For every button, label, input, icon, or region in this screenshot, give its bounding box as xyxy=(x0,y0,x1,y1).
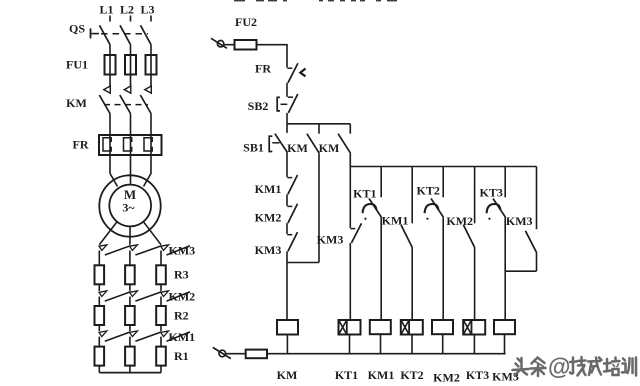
thermal relay FR label xyxy=(73,138,89,152)
thermal relay FR heater pole 2 xyxy=(124,135,132,155)
wire KM1 aux to KT2 coil xyxy=(411,248,413,320)
fuse FU1 pole 2 xyxy=(125,55,136,75)
time relay KT2 contact label xyxy=(417,184,440,198)
svg-text:KM3: KM3 xyxy=(506,214,533,228)
coil KM1 label xyxy=(368,368,395,382)
contactor KM1 shorting contact col 2 xyxy=(130,331,162,341)
svg-text:KM1: KM1 xyxy=(169,330,196,344)
wire KM1 coil to rail xyxy=(380,334,382,354)
switch QS pole 2 blade xyxy=(120,25,131,44)
wire KM3 self-hold tie xyxy=(505,270,536,272)
contactor KM1 shorting contact col 3 xyxy=(161,331,190,341)
time relay KT1 contact label xyxy=(353,187,376,201)
fuse FU2 bottom element xyxy=(246,350,267,359)
title text (cut off at top edge) xyxy=(234,0,397,1)
contactor KM aux contact (self-hold) xyxy=(307,124,319,153)
resistor R2 col 2 xyxy=(125,306,135,325)
contactor KM aux contact label xyxy=(287,141,308,155)
svg-text:R3: R3 xyxy=(174,268,189,282)
coil KT2 label xyxy=(400,368,423,382)
fuse FU1 pole 3 xyxy=(146,55,157,75)
contactor KM1 shorting contacts label xyxy=(169,330,196,344)
wire KM2 row to R2 xyxy=(160,297,162,307)
contactor KM1 NO aux contact xyxy=(401,167,412,248)
switch QS pole 1 blade xyxy=(100,25,111,44)
resistor R3 label xyxy=(174,268,189,282)
motor M 3~ xyxy=(99,175,160,236)
wire KM2 NC to KM3 NC xyxy=(286,223,288,234)
contactor KM3 NC contact label xyxy=(317,233,344,247)
wire KM3 NC to KT1 coil xyxy=(349,243,351,320)
contactor KM2 NO aux label xyxy=(446,214,473,228)
switch QS handle xyxy=(91,28,100,38)
resistor R1 label xyxy=(174,349,189,363)
wire R1 to star point xyxy=(160,366,162,373)
wire KM1 row to R1 xyxy=(129,337,131,347)
terminal plug bottom xyxy=(213,347,231,358)
wire KM1 row to R1 xyxy=(160,337,162,347)
wire R2 to KM1 row xyxy=(98,325,100,331)
coil KM1 xyxy=(370,320,391,334)
svg-text:FR: FR xyxy=(73,138,89,152)
contactor KM2 NC interlock contact xyxy=(287,204,297,223)
coil KT2 (time relay) xyxy=(401,320,423,335)
terminal plug top xyxy=(211,38,227,48)
resistor R2 label xyxy=(174,309,189,323)
coil KM label xyxy=(277,368,298,382)
contactor KM2 NO aux contact xyxy=(463,167,474,248)
svg-text:L3: L3 xyxy=(140,3,154,17)
wire FR to motor W xyxy=(144,155,152,187)
contactor KM main contact pole 2 xyxy=(120,86,131,114)
resistor R1 col 3 xyxy=(156,347,166,366)
watermark 头条@技成培训 xyxy=(513,354,637,380)
node L2 xyxy=(120,3,134,22)
wire KM aux 2 down to feed line xyxy=(349,153,351,166)
contactor KM3 shorting contact col 2 xyxy=(130,245,162,255)
wire R2 to KM1 row xyxy=(129,325,131,331)
time relay KT1 delayed contact xyxy=(363,167,382,220)
contactor KM1 NC interlock contact xyxy=(287,175,297,194)
contactor KM2 shorting contacts label xyxy=(169,290,196,304)
wire rotor middle xyxy=(129,226,131,244)
wire QS pole 1 to fuse FU1 xyxy=(109,45,111,87)
svg-text:KM2: KM2 xyxy=(255,211,282,225)
wire KM3 self-hold down xyxy=(536,253,538,271)
coil KM2 label xyxy=(433,371,460,385)
pushbutton SB2 (NC stop) xyxy=(277,94,298,113)
wire FR to motor V xyxy=(130,155,132,185)
switch QS pole 3 blade xyxy=(141,25,152,44)
time relay KT3 delayed contact xyxy=(487,167,506,220)
svg-text:KM2: KM2 xyxy=(433,371,460,385)
wire rotor right xyxy=(143,222,161,245)
coil KT1 (time relay) xyxy=(339,320,361,335)
svg-text:@: @ xyxy=(548,354,570,380)
resistor R2 col 3 xyxy=(156,306,166,325)
pushbutton SB1 label xyxy=(243,140,264,154)
svg-text:KT3: KT3 xyxy=(480,186,503,200)
wire QS pole 3 to fuse FU1 xyxy=(150,45,152,87)
contactor KM3 shorting contact col 3 xyxy=(161,245,190,255)
switch QS linkage (dashed) xyxy=(101,33,148,35)
time relay KT3 contact label xyxy=(480,186,503,200)
svg-text:KT2: KT2 xyxy=(417,184,440,198)
svg-text:R1: R1 xyxy=(174,349,189,363)
coil KT1 label xyxy=(335,368,358,382)
wire R1 to star point xyxy=(129,366,131,373)
svg-text:L1: L1 xyxy=(99,3,113,17)
coil KM xyxy=(277,320,298,335)
fuse FU2 top element xyxy=(235,40,257,50)
contactor KM linkage (dashed) xyxy=(104,104,148,106)
svg-text:KM2: KM2 xyxy=(446,214,473,228)
fuse FU1 pole 1 xyxy=(105,55,116,75)
wire self-hold tie xyxy=(287,262,319,264)
wire KM3 coil to rail xyxy=(504,334,506,354)
contactor KM main contacts label xyxy=(66,96,87,110)
wire rotor star point xyxy=(99,372,161,374)
svg-text:FR: FR xyxy=(255,62,271,76)
svg-text:KT3: KT3 xyxy=(466,368,489,382)
svg-text:KM1: KM1 xyxy=(368,368,395,382)
contactor KM1 shorting contact col 1 xyxy=(99,331,130,341)
wire R1 to star point xyxy=(98,366,100,373)
svg-text:FU1: FU1 xyxy=(66,58,88,72)
wire KT1 contact to KM1 coil xyxy=(380,217,382,320)
contactor KM3 shorting contact col 1 xyxy=(99,245,130,255)
svg-text:KM: KM xyxy=(287,141,308,155)
contactor KM main contact pole 3 xyxy=(140,86,151,114)
node L1 xyxy=(99,3,113,22)
svg-text:KM2: KM2 xyxy=(169,290,196,304)
svg-text:SB2: SB2 xyxy=(248,99,269,113)
svg-text:KM3: KM3 xyxy=(169,244,196,258)
thermal relay FR heater pole 1 xyxy=(103,135,111,155)
contactor KM3 self-hold label xyxy=(506,214,533,228)
wire KM2 row to R2 xyxy=(129,297,131,307)
resistor R3 col 1 xyxy=(95,265,105,284)
coil KM3 xyxy=(494,320,515,334)
wire KM2 row to R2 xyxy=(98,297,100,307)
svg-text:KM1: KM1 xyxy=(382,213,409,227)
contactor KM3 NC label xyxy=(255,243,282,257)
wire plug to fuse FU2 bottom xyxy=(226,353,246,355)
svg-text:KT2: KT2 xyxy=(400,368,423,382)
svg-text:3~: 3~ xyxy=(122,201,135,215)
svg-text:KM: KM xyxy=(66,96,87,110)
contactor KM3 NO self-hold contact xyxy=(525,167,536,253)
wire R3 to KM2 row xyxy=(129,284,131,291)
wire KT3 contact to KM3 coil xyxy=(504,217,506,320)
wire KM pole 2 to FR xyxy=(130,114,132,136)
switch QS label xyxy=(69,22,85,36)
coil KM3 label xyxy=(492,370,519,384)
resistor R2 col 1 xyxy=(95,306,105,325)
svg-text:KM: KM xyxy=(319,141,340,155)
svg-text:SB1: SB1 xyxy=(243,140,264,154)
wire KM pole 1 to FR xyxy=(109,114,111,136)
wire feed line xyxy=(350,166,536,168)
wire KM3 NC to KM coil xyxy=(286,251,288,320)
wire FR to motor U xyxy=(110,155,118,187)
wire SB1 to KM1 NC xyxy=(286,153,288,178)
wire junction bus under SB2 xyxy=(287,123,350,125)
svg-text:KT1: KT1 xyxy=(353,187,376,201)
resistor R3 col 3 xyxy=(156,265,166,284)
wire KM3 row to R3 xyxy=(129,251,131,266)
svg-text:L2: L2 xyxy=(120,3,134,17)
svg-text:KM: KM xyxy=(277,368,298,382)
coil KM2 xyxy=(432,320,453,334)
pushbutton SB2 label xyxy=(248,99,269,113)
wire bottom rail xyxy=(267,353,506,355)
thermal relay FR heater pole 3 xyxy=(144,135,152,155)
wire FU2 to main line xyxy=(257,45,288,68)
node L3 xyxy=(140,3,154,22)
contactor KM2 shorting contact col 3 xyxy=(161,291,190,301)
contactor KM3 NC interlock contact xyxy=(287,232,297,251)
wire KM pole 3 to FR xyxy=(150,114,152,136)
wire rotor left xyxy=(99,222,117,245)
wire KM1 row to R1 xyxy=(98,337,100,347)
wire KM3 row to R3 xyxy=(98,251,100,266)
wire KT3 coil to rail xyxy=(473,335,475,354)
wire SB2 to junction xyxy=(286,113,288,124)
time relay KT2 delayed contact xyxy=(425,167,444,220)
contactor KM3 shorting contacts label xyxy=(169,244,196,258)
wire KM3 row to R3 xyxy=(160,251,162,266)
resistor R1 col 1 xyxy=(95,347,105,366)
wire KT2 coil to rail xyxy=(411,335,413,354)
svg-text:KT1: KT1 xyxy=(335,368,358,382)
fuse FU1 label xyxy=(66,58,88,72)
svg-text:KM1: KM1 xyxy=(255,182,282,196)
wire KT1 coil to rail xyxy=(349,335,351,354)
contactor KM aux contact 2 xyxy=(338,124,350,153)
pushbutton SB1 (NO start) xyxy=(269,124,287,153)
wire KM2 aux to KT3 coil xyxy=(474,248,476,320)
fuse FU2 label xyxy=(235,15,257,29)
svg-text:KM3: KM3 xyxy=(255,243,282,257)
wire KM coil to rail xyxy=(286,335,288,354)
wire FR to SB2 xyxy=(286,83,288,97)
wire R3 to KM2 row xyxy=(160,284,162,291)
wire R2 to KM1 row xyxy=(160,325,162,331)
coil KT3 label xyxy=(466,368,489,382)
svg-text:KM3: KM3 xyxy=(317,233,344,247)
resistor R3 col 2 xyxy=(125,265,135,284)
contactor KM3 NC contact (timer cutout) xyxy=(350,223,361,243)
thermal relay FR contact label xyxy=(255,62,271,76)
wire R3 to KM2 row xyxy=(98,284,100,291)
svg-text:R2: R2 xyxy=(174,309,189,323)
resistor R1 col 2 xyxy=(125,347,135,366)
contactor KM2 shorting contact col 1 xyxy=(99,291,130,301)
wire plug to fuse FU2 xyxy=(224,44,235,46)
wire KM2 coil to rail xyxy=(442,334,444,354)
wire KM1 NC to KM2 NC xyxy=(286,194,288,206)
contactor KM aux contact 2 label xyxy=(319,141,340,155)
thermal relay FR NC contact xyxy=(287,63,305,83)
contactor KM2 shorting contact col 2 xyxy=(130,291,162,301)
wire feed to KM3 NC contact xyxy=(349,167,351,229)
contactor KM2 NC label xyxy=(255,211,282,225)
coil KT3 (time relay) xyxy=(463,320,485,335)
svg-text:FU2: FU2 xyxy=(235,15,257,29)
thermal relay FR box xyxy=(99,135,162,155)
contactor KM main contact pole 1 xyxy=(99,86,110,114)
wire KM self-hold branch xyxy=(318,153,320,262)
contactor KM1 NC label xyxy=(255,182,282,196)
svg-text:QS: QS xyxy=(69,22,85,36)
wire QS pole 2 to fuse FU1 xyxy=(130,45,132,87)
wire KT2 contact to KM2 coil xyxy=(442,217,444,320)
contactor KM1 NO aux label xyxy=(382,213,409,227)
